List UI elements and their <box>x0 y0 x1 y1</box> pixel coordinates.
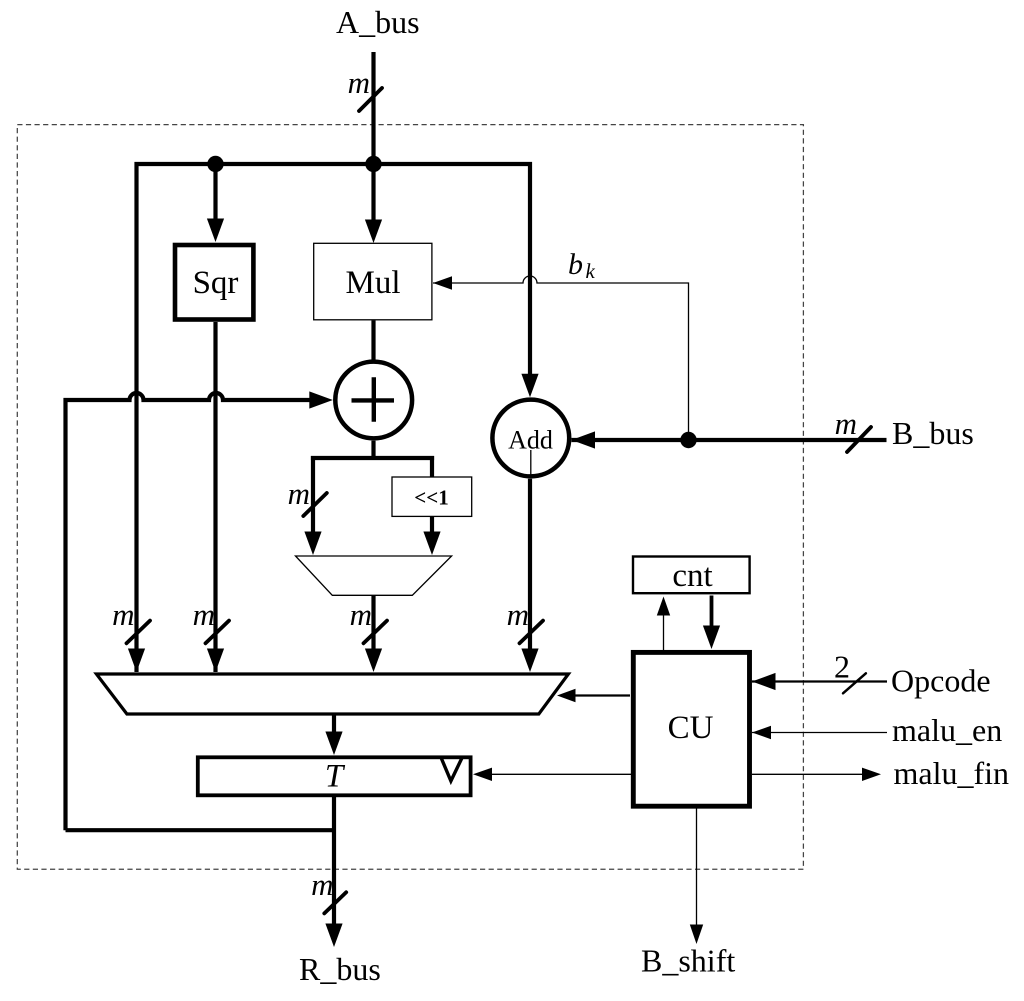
svg-text:m: m <box>112 597 134 632</box>
svg-text:m: m <box>348 65 370 100</box>
svg-text:malu_fin: malu_fin <box>894 755 1010 791</box>
svg-text:k: k <box>586 259 596 283</box>
svg-text:CU: CU <box>668 710 714 746</box>
svg-text:Sqr: Sqr <box>193 265 239 301</box>
svg-text:m: m <box>350 597 372 632</box>
svg-text:Mul: Mul <box>345 265 400 301</box>
svg-text:m: m <box>288 476 310 511</box>
svg-text:b: b <box>568 248 583 281</box>
svg-text:Opcode: Opcode <box>891 663 991 699</box>
svg-text:<<1: <<1 <box>414 486 448 510</box>
svg-text:R_bus: R_bus <box>299 951 381 987</box>
svg-text:m: m <box>507 597 529 632</box>
svg-text:Add: Add <box>508 426 553 455</box>
svg-text:m: m <box>835 406 857 441</box>
svg-text:2: 2 <box>834 649 850 685</box>
svg-text:B_bus: B_bus <box>892 415 974 451</box>
svg-text:malu_en: malu_en <box>892 712 1002 748</box>
svg-text:B_shift: B_shift <box>641 943 735 979</box>
svg-text:cnt: cnt <box>672 558 712 594</box>
svg-text:m: m <box>311 867 333 902</box>
svg-text:T: T <box>325 759 346 795</box>
svg-text:A_bus: A_bus <box>336 4 420 40</box>
svg-text:m: m <box>193 597 215 632</box>
